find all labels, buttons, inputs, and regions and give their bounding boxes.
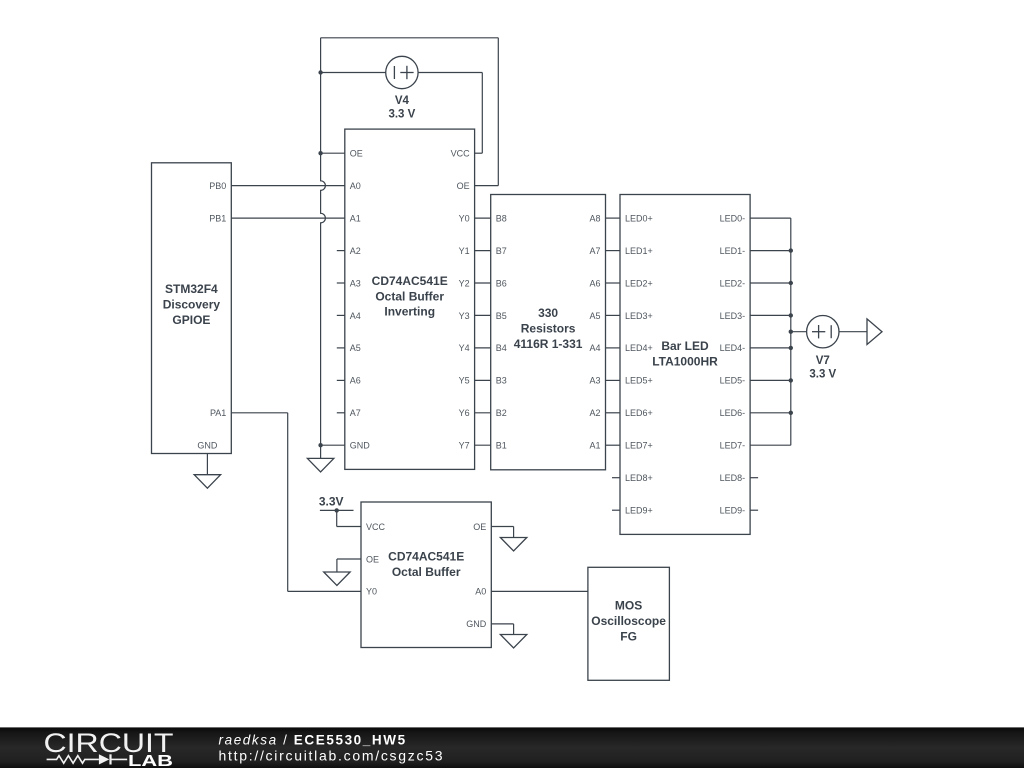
- svg-text:A0: A0: [475, 587, 486, 597]
- svg-text:LED1+: LED1+: [625, 246, 653, 256]
- svg-text:LED7+: LED7+: [625, 441, 653, 451]
- svg-text:Octal Buffer: Octal Buffer: [375, 289, 444, 303]
- svg-text:B4: B4: [496, 343, 507, 353]
- svg-text:FG: FG: [620, 629, 637, 643]
- svg-text:Y0: Y0: [459, 213, 470, 223]
- svg-text:Y4: Y4: [459, 343, 470, 353]
- svg-text:Y1: Y1: [459, 246, 470, 256]
- svg-text:A4: A4: [589, 343, 600, 353]
- svg-text:Inverting: Inverting: [384, 305, 435, 319]
- svg-text:LED2-: LED2-: [720, 278, 746, 288]
- svg-text:A6: A6: [350, 376, 361, 386]
- svg-text:B6: B6: [496, 278, 507, 288]
- svg-text:B3: B3: [496, 376, 507, 386]
- svg-text:LED0+: LED0+: [625, 213, 653, 223]
- svg-text:GPIOE: GPIOE: [172, 313, 210, 327]
- svg-text:LED3-: LED3-: [720, 311, 746, 321]
- svg-text:Resistors: Resistors: [521, 322, 576, 336]
- svg-text:LED2+: LED2+: [625, 278, 653, 288]
- svg-text:GND: GND: [197, 441, 218, 451]
- svg-text:VCC: VCC: [366, 522, 386, 532]
- svg-text:CD74AC541E: CD74AC541E: [388, 550, 464, 564]
- svg-text:3.3V: 3.3V: [319, 495, 344, 509]
- svg-text:CD74AC541E: CD74AC541E: [372, 274, 448, 288]
- svg-text:LED9-: LED9-: [720, 506, 746, 516]
- svg-text:B7: B7: [496, 246, 507, 256]
- svg-text:PA1: PA1: [210, 408, 226, 418]
- svg-text:Y7: Y7: [459, 441, 470, 451]
- svg-text:4116R 1-331: 4116R 1-331: [514, 337, 583, 351]
- svg-text:Bar LED: Bar LED: [661, 339, 709, 353]
- svg-text:A1: A1: [589, 441, 600, 451]
- svg-text:Y3: Y3: [459, 311, 470, 321]
- svg-text:B8: B8: [496, 213, 507, 223]
- svg-text:LED6+: LED6+: [625, 408, 653, 418]
- svg-text:LED5-: LED5-: [720, 376, 746, 386]
- svg-text:http://circuitlab.com/csgzc53: http://circuitlab.com/csgzc53: [219, 747, 445, 763]
- svg-text:LED4-: LED4-: [720, 343, 746, 353]
- svg-text:A1: A1: [350, 213, 361, 223]
- svg-text:LED8+: LED8+: [625, 473, 653, 483]
- svg-text:STM32F4: STM32F4: [165, 282, 218, 296]
- svg-text:Y0: Y0: [366, 587, 377, 597]
- svg-text:A2: A2: [350, 246, 361, 256]
- svg-text:LED5+: LED5+: [625, 376, 653, 386]
- svg-text:PB1: PB1: [209, 213, 226, 223]
- svg-text:PB0: PB0: [209, 181, 226, 191]
- svg-text:VCC: VCC: [451, 149, 471, 159]
- svg-text:LTA1000HR: LTA1000HR: [652, 354, 718, 368]
- svg-text:LAB: LAB: [128, 753, 173, 768]
- svg-text:A7: A7: [350, 408, 361, 418]
- svg-text:Y2: Y2: [459, 278, 470, 288]
- svg-text:LED7-: LED7-: [720, 441, 746, 451]
- svg-text:Y5: Y5: [459, 376, 470, 386]
- svg-text:B2: B2: [496, 408, 507, 418]
- svg-text:A5: A5: [589, 311, 600, 321]
- svg-text:A3: A3: [589, 376, 600, 386]
- svg-text:OE: OE: [366, 554, 379, 564]
- svg-text:3.3 V: 3.3 V: [388, 109, 415, 121]
- svg-text:LED0-: LED0-: [720, 213, 746, 223]
- svg-text:OE: OE: [473, 522, 486, 532]
- svg-text:LED8-: LED8-: [720, 473, 746, 483]
- svg-text:LED1-: LED1-: [720, 246, 746, 256]
- svg-text:V4: V4: [395, 95, 410, 107]
- svg-text:V7: V7: [816, 355, 830, 367]
- svg-text:330: 330: [538, 306, 558, 320]
- svg-text:OE: OE: [457, 181, 470, 191]
- svg-text:A7: A7: [589, 246, 600, 256]
- svg-text:3.3 V: 3.3 V: [809, 369, 836, 381]
- svg-text:GND: GND: [350, 441, 371, 451]
- svg-text:A3: A3: [350, 278, 361, 288]
- svg-text:GND: GND: [466, 619, 487, 629]
- svg-text:B1: B1: [496, 441, 507, 451]
- svg-text:Y6: Y6: [459, 408, 470, 418]
- svg-text:A4: A4: [350, 311, 361, 321]
- svg-text:LED9+: LED9+: [625, 506, 653, 516]
- svg-text:Discovery: Discovery: [163, 297, 221, 311]
- svg-text:LED4+: LED4+: [625, 343, 653, 353]
- svg-text:Octal Buffer: Octal Buffer: [392, 565, 461, 579]
- svg-text:A5: A5: [350, 343, 361, 353]
- svg-text:A8: A8: [589, 213, 600, 223]
- svg-text:raedksa / ECE5530_HW5: raedksa / ECE5530_HW5: [219, 733, 407, 748]
- svg-text:B5: B5: [496, 311, 507, 321]
- svg-text:A6: A6: [589, 278, 600, 288]
- svg-text:OE: OE: [350, 149, 363, 159]
- svg-text:A0: A0: [350, 181, 361, 191]
- svg-text:A2: A2: [589, 408, 600, 418]
- svg-text:LED6-: LED6-: [720, 408, 746, 418]
- svg-text:LED3+: LED3+: [625, 311, 653, 321]
- svg-text:Oscilloscope: Oscilloscope: [591, 614, 666, 628]
- svg-text:MOS: MOS: [615, 598, 642, 612]
